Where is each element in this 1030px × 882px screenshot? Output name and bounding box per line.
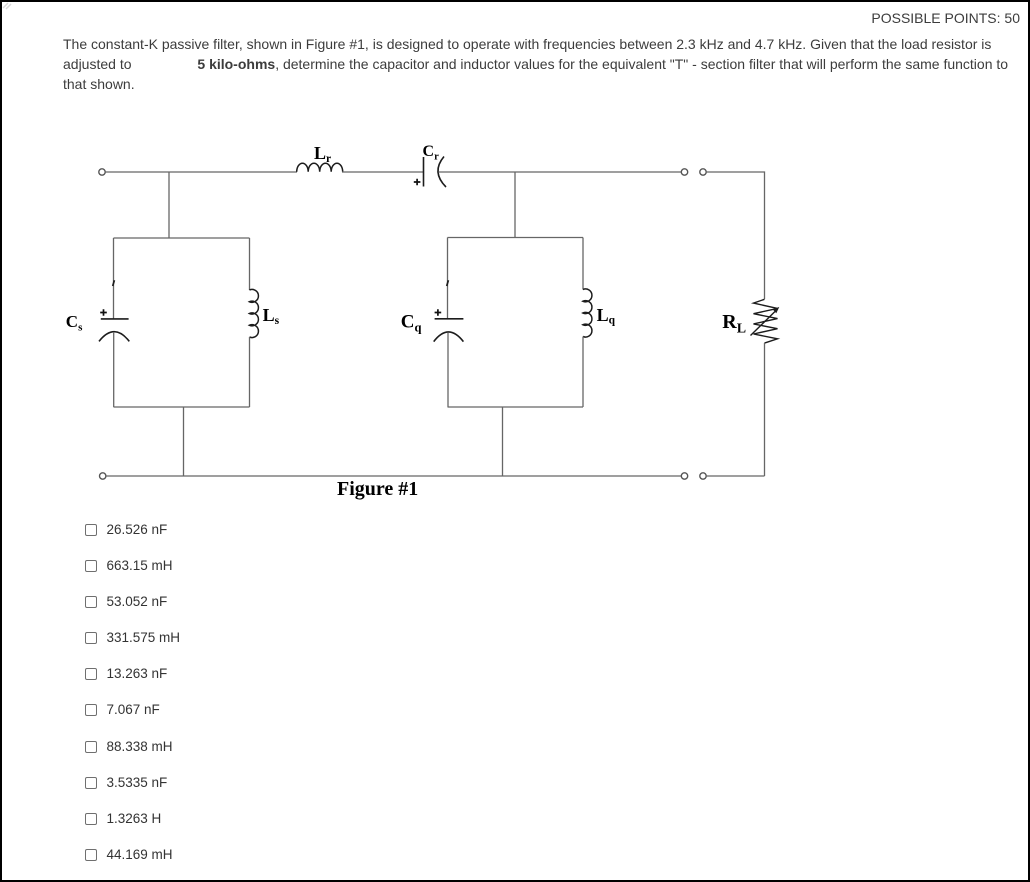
- plus sign of Cs: [100, 309, 107, 316]
- inductor Lq: [583, 289, 592, 337]
- block 1 top edge wire: [114, 237, 250, 239]
- resistor RL zigzag: [754, 299, 778, 343]
- tick mark on block 2 left edge: [447, 280, 449, 286]
- wire junction drop to node A (block 1 top): [168, 172, 170, 238]
- svg-text:Cs: Cs: [66, 312, 83, 334]
- block 2 bottom edge wire: [448, 406, 584, 408]
- svg-text:Cr: Cr: [423, 143, 440, 163]
- inductor Lr: [297, 163, 343, 172]
- capacitor Cq curved plate: [434, 332, 464, 342]
- capacitor Cr plate: [423, 157, 425, 187]
- block 1 left edge wire upper: [113, 238, 115, 319]
- capacitor Cs plate: [101, 318, 129, 320]
- capacitor Cr curved plate: [438, 157, 446, 188]
- wire bottom rail: [106, 475, 681, 477]
- svg-text:Ls: Ls: [263, 305, 280, 327]
- wire load bottom: [764, 343, 766, 476]
- wire block 1 bottom exit: [183, 407, 185, 476]
- wire top rail right of Cr: [439, 171, 682, 173]
- block 1 right edge wire upper: [249, 238, 251, 290]
- block 1 bottom edge wire: [114, 406, 250, 408]
- block 1 left edge wire lower: [113, 333, 115, 407]
- svg-text:Lq: Lq: [597, 305, 616, 327]
- block 2 top edge wire: [448, 237, 584, 239]
- terminal input bottom-left: [100, 473, 106, 479]
- tick mark on block 1 left edge: [113, 280, 115, 286]
- block 1 right edge wire lower: [249, 337, 251, 407]
- wire between Lr and Cr: [342, 171, 424, 173]
- block 2 left edge wire upper: [447, 238, 449, 319]
- block 2 right edge wire lower: [582, 337, 584, 408]
- terminal input top-left: [99, 169, 105, 175]
- arrow of RL (variable): [751, 311, 776, 336]
- capacitor Cq plate: [435, 318, 464, 320]
- inductor Ls: [250, 289, 259, 337]
- terminal output top (right circle): [700, 169, 706, 175]
- svg-text:Figure #1: Figure #1: [337, 478, 418, 500]
- plus sign of Cr: [414, 179, 421, 186]
- wire block 2 bottom exit: [502, 407, 504, 476]
- wire from output terminal to load top: [706, 172, 764, 299]
- terminal output top (left circle): [681, 169, 687, 175]
- wire bottom rail to load: [706, 475, 764, 477]
- svg-text:RL: RL: [722, 311, 746, 337]
- block 2 left edge wire lower: [447, 333, 449, 407]
- svg-text:Cq: Cq: [401, 312, 422, 335]
- capacitor Cs curved plate: [99, 332, 129, 342]
- svg-text:Lr: Lr: [314, 143, 331, 165]
- wire top rail left segment: [105, 171, 297, 173]
- wire junction drop to node B (block 2 top): [514, 172, 516, 238]
- terminal output bottom (left circle): [681, 473, 687, 479]
- terminal output bottom (right circle): [700, 473, 706, 479]
- plus sign of Cq: [435, 309, 442, 316]
- block 2 right edge wire upper: [582, 238, 584, 290]
- corner artifact mark: [3, 3, 11, 9]
